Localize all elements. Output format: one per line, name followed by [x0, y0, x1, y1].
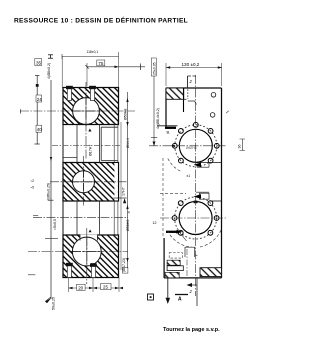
centerline middle bore horizontal	[50, 181, 128, 183]
svg-text:B.: B.	[167, 130, 171, 135]
bore top notch circle2	[194, 201, 198, 204]
lug bottom edge extension	[184, 98, 187, 100]
svg-text:≈5: ≈5	[31, 186, 35, 190]
small triangle marker lower zone	[89, 230, 92, 233]
top section line corner	[187, 76, 189, 88]
top block hatched body	[63, 88, 119, 125]
circle 1 bolt ring dashdot	[175, 125, 217, 167]
notch below circle2	[185, 247, 195, 257]
section arrow tick	[188, 284, 197, 286]
dim 130 ext lines	[165, 63, 167, 86]
boxed 24	[36, 95, 42, 102]
svg-text:12: 12	[153, 221, 157, 225]
circle 1 bore	[179, 129, 212, 162]
boxed 25	[101, 284, 112, 290]
centerline top bore vertical	[85, 82, 87, 160]
svg-text:Ø58H8: Ø58H8	[126, 220, 130, 231]
outline bottom edge	[164, 277, 221, 279]
horizontal hole centerline	[52, 145, 120, 147]
svg-text:118±0,1: 118±0,1	[87, 50, 99, 54]
right side small dim 36	[242, 139, 244, 151]
svg-text:(Ø17,23): (Ø17,23)	[122, 258, 126, 272]
boxed 20	[77, 284, 86, 290]
circle 1 bolt holes	[172, 122, 219, 163]
svg-text:25±0,05: 25±0,05	[152, 62, 156, 75]
mid white zone bore walls	[62, 125, 64, 163]
svg-text:4x(Ø8,4±0,2): 4x(Ø8,4±0,2)	[156, 108, 160, 129]
circle 2 bolt holes	[172, 201, 219, 236]
outline left edge lower	[163, 238, 165, 278]
svg-text:A: A	[178, 297, 182, 303]
left dim line 1	[36, 76, 38, 145]
left dim column: boxed 35	[35, 59, 42, 66]
centerline lower passage horizontal	[33, 217, 128, 219]
thick section mark on step	[165, 127, 176, 129]
bottom dim line	[69, 287, 120, 289]
bottom block hatched body	[63, 235, 119, 278]
bottom dim arrows	[69, 287, 73, 289]
top bore circle	[73, 98, 100, 125]
svg-text:24: 24	[37, 97, 42, 102]
boxed 40	[36, 125, 42, 132]
bottom slot left screw mark	[66, 263, 73, 266]
bore crosshair top	[71, 97, 102, 127]
datum I symbol	[48, 55, 53, 58]
top slot left	[67, 88, 71, 101]
top dim extension left edge	[61, 56, 63, 88]
flange band lower segment	[113, 201, 115, 235]
lower white zone walls	[62, 201, 64, 235]
extension line x=121	[120, 122, 122, 270]
svg-text:RESSOURCE 10 : DESSIN DE DÉFIN: RESSOURCE 10 : DESSIN DE DÉFINITION PART…	[14, 16, 188, 25]
outline top edge	[166, 87, 222, 89]
circle 2 thick leader left	[166, 231, 177, 233]
left dim line 2	[50, 80, 52, 299]
svg-text:20: 20	[78, 285, 83, 290]
left dim line 1 top tick	[35, 75, 39, 77]
hidden dashed line above circle2	[160, 193, 186, 195]
svg-text:4: 4	[128, 211, 130, 215]
svg-text:36: 36	[238, 145, 242, 149]
bottom bore circle	[72, 237, 101, 266]
top dim extension line right edge	[118, 52, 120, 88]
circle 2 bolt ring dashdot	[175, 197, 217, 239]
centerline bottom bore vertical	[86, 228, 88, 284]
top slot right screw mark	[89, 86, 96, 89]
svg-text:Ø44,4: Ø44,4	[126, 138, 130, 148]
short hline 274.8	[28, 274, 35, 276]
small tick right of view	[226, 111, 229, 114]
bottom slot left	[67, 264, 71, 278]
circle1 right pocket lines	[196, 162, 222, 164]
boxed dimension 75	[97, 60, 105, 66]
arrow ticks on that line	[126, 98, 128, 102]
svg-text:4(Ø8±0,2): 4(Ø8±0,2)	[47, 63, 51, 79]
svg-text:130 ±0,2: 130 ±0,2	[182, 62, 200, 67]
corner lug hatched	[166, 88, 184, 99]
circle 2 bore	[179, 202, 212, 235]
circle2 leader arrow	[194, 194, 202, 199]
outline left edge upper	[165, 88, 167, 127]
left dim node square	[36, 84, 39, 87]
bottom slot right	[91, 264, 95, 278]
svg-text:50±0,25: 50±0,25	[52, 297, 56, 310]
vertical centerline of right view	[195, 75, 197, 296]
lug right edge down	[183, 88, 185, 112]
svg-text:40: 40	[37, 127, 42, 132]
section line right below view	[196, 278, 198, 306]
bottom slot right screw mark	[90, 263, 97, 266]
small hline 238	[45, 238, 58, 240]
bottom arrow of line2	[45, 298, 51, 303]
svg-text:≈2: ≈2	[31, 179, 35, 183]
outline right edge	[221, 88, 223, 278]
svg-text:Tournez la page s.v.p.: Tournez la page s.v.p.	[163, 327, 220, 333]
hidden left edge dashes	[162, 158, 164, 238]
bottom left dashed slot	[169, 253, 182, 259]
bottom left slot	[167, 266, 183, 271]
circle2 top-right pocket lines	[196, 191, 209, 193]
dimension top right tick	[140, 64, 142, 71]
bolt hole top	[211, 93, 216, 98]
top slot left screw mark	[66, 86, 73, 89]
centerline bottom bore horizontal	[28, 251, 128, 253]
centerline left end tick	[20, 109, 22, 113]
circle1 leader arrow	[194, 162, 202, 167]
left dim line1 bottom tick	[34, 143, 39, 145]
flange band upper segment	[113, 122, 115, 163]
top slot right	[90, 88, 94, 101]
centerline middle bore vertical	[83, 156, 85, 207]
circle 2 H centerline	[160, 217, 227, 219]
small triangle marker	[88, 129, 91, 132]
bottom left hatched piece	[167, 260, 180, 265]
bore crosshair bottom	[71, 236, 103, 268]
bottom dim extension lines	[68, 278, 70, 293]
line2 tick b	[49, 199, 54, 201]
svg-text:Ø50H8: Ø50H8	[124, 109, 128, 120]
step line	[157, 125, 178, 127]
svg-text:x1: x1	[187, 174, 191, 178]
foot slot centerline	[186, 249, 188, 278]
svg-text:≈5±0,5: ≈5±0,5	[53, 219, 57, 230]
centerline top bore horizontal	[20, 110, 135, 112]
svg-text:Ø17H7: Ø17H7	[89, 145, 93, 156]
svg-text:75: 75	[98, 61, 104, 66]
svg-text:4(Ø6±0,25): 4(Ø6±0,25)	[47, 183, 51, 201]
bolt hole second	[210, 113, 215, 118]
side boss outline upper zone	[100, 127, 102, 160]
dimension top arrow	[115, 66, 119, 69]
svg-text:35: 35	[36, 60, 42, 65]
dim 130 line	[166, 67, 222, 69]
flange step tick	[114, 197, 127, 199]
datum box symbol	[148, 294, 154, 300]
circle 1 H centerline	[149, 145, 227, 147]
vertical dim line x154	[153, 58, 155, 146]
svg-text:17H7: 17H7	[122, 187, 126, 196]
bottom right hatched block	[200, 268, 222, 277]
middle bore circle	[73, 171, 95, 193]
small dotted leader near lug	[187, 90, 189, 100]
step line left above middle block	[63, 157, 77, 159]
section arrow left below view	[167, 278, 169, 300]
right-of-left-view dim line	[127, 92, 129, 268]
dashed boss arc below circle1	[168, 159, 181, 172]
svg-text:Ø62H8: Ø62H8	[186, 146, 197, 150]
svg-text:25: 25	[103, 285, 108, 290]
bottom bore slot	[80, 235, 97, 240]
dimension top of left view line	[87, 66, 145, 68]
boxed rotated dim on x154	[151, 58, 156, 76]
dashed boss arcs below circle2	[168, 231, 193, 248]
bottom left corner hatch	[165, 272, 179, 278]
dimension top left tick	[86, 65, 89, 69]
middle block hatched body	[63, 163, 119, 202]
A label with overline	[175, 294, 188, 296]
bore crosshair middle	[71, 170, 96, 195]
line2 arrow a	[50, 157, 52, 161]
circle1 centerline arrow	[171, 145, 175, 147]
upper dim line y56	[62, 56, 119, 58]
middle block flange band white	[114, 163, 118, 200]
small tick mid left	[33, 215, 38, 217]
top dim extension line from bore center	[86, 63, 88, 86]
